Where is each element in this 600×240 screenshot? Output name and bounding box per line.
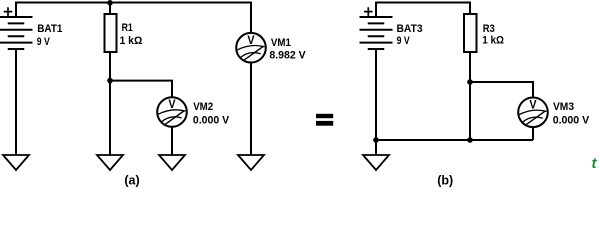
- voltmeter VM3: [518, 98, 548, 128]
- node junction dot at R1 top rail: [107, 0, 113, 6]
- wire: VM2 bottom to ground: [171, 127, 173, 155]
- wire: BAT1 bottom stub to ground: [15, 49, 17, 155]
- svg-text:(a): (a): [124, 174, 139, 188]
- wire: bottom rail: [376, 139, 533, 141]
- BAT3 plus sign: [364, 7, 373, 16]
- node junction dot R3/VM3 branch: [467, 79, 473, 85]
- wire: VM1 bottom to ground: [250, 63, 252, 156]
- BAT1 plus sign: [4, 7, 13, 16]
- svg-text:8.982 V: 8.982 V: [269, 50, 306, 62]
- svg-text:VM2: VM2: [193, 101, 213, 113]
- svg-text:(b): (b): [437, 174, 453, 188]
- ground (R1): [97, 155, 123, 170]
- resistor R3: [464, 14, 477, 52]
- voltmeter VM2: [157, 97, 187, 127]
- wire: VM3 bottom to bottom rail: [532, 127, 534, 140]
- battery BAT3: [360, 17, 393, 49]
- voltmeter VM1: [236, 33, 266, 63]
- svg-text:0.000 V: 0.000 V: [193, 115, 230, 127]
- node junction dot R3 at bottom rail: [467, 137, 473, 143]
- equals sign: [316, 114, 333, 118]
- svg-text:R3: R3: [483, 23, 495, 35]
- wire: branch to VM2: [110, 81, 172, 98]
- svg-text:9 V: 9 V: [397, 35, 410, 47]
- svg-text:0.000 V: 0.000 V: [553, 115, 590, 127]
- resistor R1: [105, 14, 117, 52]
- wire: circuit a top net (battery stub, top rail, VM1 drop): [16, 3, 251, 34]
- wire: R1 bottom to ground: [109, 52, 111, 155]
- wire: BAT3 bottom stub to ground: [375, 49, 377, 155]
- ground (battery a): [3, 155, 29, 170]
- node junction dot R1/VM2 branch: [107, 78, 113, 84]
- wire: R3 bottom to bottom rail: [469, 52, 471, 140]
- wire: R1 top tap: [109, 3, 111, 15]
- svg-text:1 kΩ: 1 kΩ: [120, 35, 143, 47]
- svg-text:1 kΩ: 1 kΩ: [482, 35, 504, 47]
- ground (VM2): [159, 155, 185, 170]
- ground (battery b): [363, 155, 389, 170]
- ground (VM1): [238, 155, 264, 170]
- svg-text:BAT3: BAT3: [397, 23, 423, 35]
- svg-text:9 V: 9 V: [37, 36, 50, 48]
- battery BAT1: [0, 17, 33, 49]
- svg-text:R1: R1: [122, 22, 133, 34]
- wire: circuit b top net (battery stub, top rail, R3 drop): [376, 3, 470, 18]
- svg-text:VM1: VM1: [271, 37, 291, 49]
- node junction dot bottom rail at battery: [373, 137, 379, 143]
- wire: branch to VM3: [470, 82, 533, 98]
- svg-text:BAT1: BAT1: [37, 23, 62, 35]
- svg-text:VM3: VM3: [553, 101, 574, 113]
